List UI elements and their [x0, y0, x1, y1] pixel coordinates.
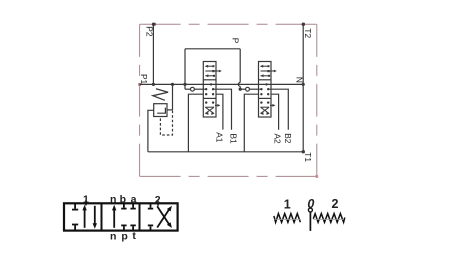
DV2 position-2 port dots — [260, 101, 262, 103]
DV1 position-2 side arrow — [215, 104, 217, 106]
cell1 blocked port bottom — [72, 224, 78, 226]
svg-text:0: 0 — [307, 197, 314, 211]
valve DV2 internals — [259, 65, 277, 115]
svg-text:T2: T2 — [303, 28, 313, 38]
DV2 position-1 flow arrows — [261, 65, 269, 67]
wire relief inlet vertical — [172, 84, 174, 110]
dashed enclosure border (valve body outline) — [140, 24, 317, 176]
pilot line dashed — [160, 111, 172, 136]
svg-text:1: 1 — [83, 193, 89, 205]
spring 1 — [274, 214, 301, 223]
DV1 position-2 crossed arrows — [205, 106, 214, 108]
relief valve internal arrow — [157, 108, 165, 114]
wire P2 vertical — [152, 24, 154, 84]
cell1 arrow down — [94, 206, 96, 225]
detent pin line — [309, 212, 311, 231]
grip dot T2 top — [302, 23, 305, 26]
wire N/T right vertical — [302, 24, 304, 152]
node P2 top — [152, 23, 155, 26]
wire valve1 tank frame — [188, 94, 203, 152]
svg-text:p: p — [121, 231, 127, 243]
wire A1 — [216, 94, 223, 129]
DV2 carry-over port dot — [265, 83, 267, 85]
tick under 2 — [157, 201, 159, 206]
junction dots — [152, 23, 305, 154]
lower-right spring detents — [274, 208, 345, 231]
svg-text:n: n — [110, 193, 116, 205]
svg-text:T1: T1 — [303, 152, 313, 162]
detent pin circle — [308, 208, 312, 212]
svg-text:t: t — [132, 230, 136, 242]
wire supply to valve1 — [185, 88, 191, 90]
svg-text:A2: A2 — [272, 134, 282, 145]
labels — [139, 26, 313, 162]
DV1 position-2 port dots — [205, 101, 207, 103]
svg-text:1: 1 — [284, 198, 291, 212]
DV2 neutral position blocked ports — [259, 88, 262, 90]
valve DV1 internals — [203, 65, 222, 115]
grip dot T1 — [302, 150, 305, 153]
svg-text:P1: P1 — [139, 74, 149, 85]
svg-text:a: a — [131, 193, 137, 205]
wire P loop top — [185, 48, 240, 50]
svg-text:P2: P2 — [144, 26, 154, 37]
valve DV2 box — [259, 62, 272, 118]
wire relief inlet to box — [167, 109, 173, 111]
legend divider 2 — [139, 203, 141, 230]
svg-text:b: b — [120, 193, 126, 205]
wire relief drain left — [148, 110, 154, 152]
lower-left valve sections legend — [64, 200, 178, 230]
node relief tee — [171, 83, 174, 86]
node T2 top — [302, 23, 305, 26]
grip dot bottom-right corner — [316, 175, 319, 178]
svg-text:B1: B1 — [228, 134, 238, 145]
svg-text:B2: B2 — [283, 133, 293, 144]
node T1 corner — [302, 150, 305, 153]
node N tee — [302, 83, 305, 86]
cell1 arrow up — [84, 209, 86, 228]
wire valve2 tank frame — [244, 94, 258, 152]
node valve2 supply corner — [239, 88, 242, 91]
valve DV1 box — [203, 62, 216, 118]
wire supply to valve2 — [240, 88, 245, 90]
tick under 1 — [85, 200, 87, 205]
cell2 blocked ports bottom — [121, 224, 126, 226]
wire P loop right vertical with hop — [239, 49, 241, 83]
wire tank bottom line — [148, 151, 303, 153]
cell3 blocked port top — [150, 203, 152, 208]
legend divider 1 — [101, 203, 103, 230]
DV2 position-2 side arrow — [270, 104, 272, 106]
svg-text:A1: A1 — [214, 132, 224, 143]
DV1 carry-over port dot — [210, 83, 212, 85]
cell1 blocked port top — [74, 203, 76, 209]
node circle valve2 supply — [246, 87, 250, 91]
node circle valve1 supply — [191, 87, 195, 91]
svg-text:n: n — [110, 231, 116, 243]
grip dot P2 top — [153, 23, 156, 26]
wire B2 — [271, 89, 288, 130]
wire B1 — [216, 89, 232, 130]
spring centerlines — [275, 218, 344, 220]
svg-text:2: 2 — [155, 194, 161, 206]
svg-text:2: 2 — [332, 197, 339, 211]
relief valve V1 box — [154, 104, 167, 117]
node P loop tee — [183, 83, 186, 86]
DV1 position-1 flow arrows — [206, 65, 214, 67]
wire P loop left vertical — [184, 49, 186, 89]
legend outer box — [64, 203, 178, 230]
wire A2 — [271, 94, 279, 130]
svg-text:P: P — [231, 38, 241, 44]
cell2 blocked ports top — [123, 203, 125, 208]
spring 2 — [313, 214, 345, 223]
cell2 arrow up — [113, 209, 115, 228]
DV1 neutral position blocked ports — [203, 88, 206, 90]
cell3 blocked port bottom — [148, 224, 153, 226]
grip dot P1 left — [138, 83, 141, 86]
wire main P1/N horizontal line — [140, 83, 304, 85]
svg-text:N: N — [295, 77, 305, 83]
node P2/P1 junction — [152, 83, 155, 86]
DV2 position-2 crossed arrows — [261, 106, 270, 108]
cell3 crossed arrows — [157, 209, 170, 228]
relief valve spring — [153, 89, 168, 101]
